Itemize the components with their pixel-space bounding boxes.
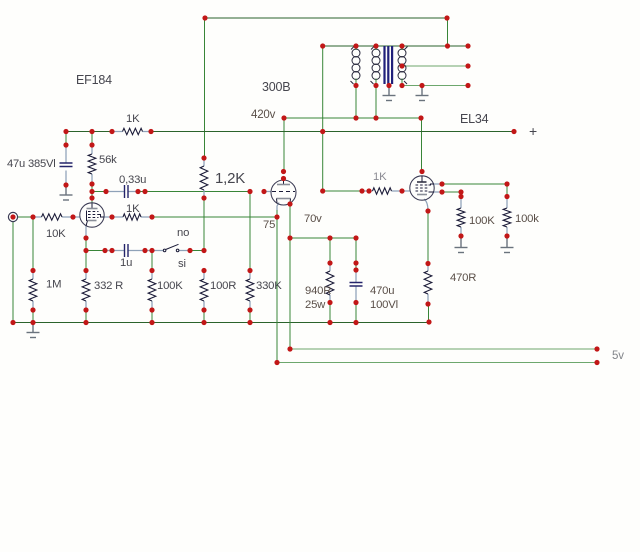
wire 100K bottom to bus	[151, 310, 153, 323]
svg-text:940R: 940R	[305, 285, 331, 297]
ground (47u)	[60, 185, 73, 200]
wire 70v to 470u	[355, 238, 357, 270]
wire top HT rail	[205, 17, 447, 19]
svg-text:420v: 420v	[251, 109, 276, 121]
svg-text:470u: 470u	[370, 285, 394, 297]
wire 1M leads	[32, 271, 34, 311]
resistor 1M	[29, 279, 37, 301]
node dot EL34 top	[419, 169, 424, 174]
wire EL34 upper pin lead	[434, 183, 442, 185]
wire top rail to 1,2K top	[204, 18, 206, 158]
node dots B+ rail	[63, 129, 516, 134]
wire 47u bottom lead	[65, 171, 67, 186]
svg-text:EF184: EF184	[76, 73, 112, 87]
wire 70v row	[290, 237, 356, 239]
node dots 420v plate line	[281, 115, 423, 120]
wire input to 10K	[17, 216, 33, 218]
wire 330K leads	[249, 271, 251, 311]
node dots 300B top	[281, 169, 286, 181]
wire EL34 cathode down to 470R	[427, 211, 429, 264]
resistor 332 R	[82, 279, 90, 301]
ground (main bus)	[27, 323, 40, 338]
wire 470u leads	[355, 270, 357, 303]
node dots top rail	[202, 15, 449, 20]
capacitor 470u 100Vl	[350, 283, 363, 287]
wire EL34 grid row	[323, 190, 362, 192]
wire 300B filament right lead	[289, 202, 291, 204]
svg-text:100K: 100K	[469, 215, 495, 227]
wire 300B grid lead	[264, 191, 271, 193]
ground (secondary)	[416, 86, 429, 101]
svg-text:+: +	[529, 123, 537, 139]
wire 332R leads	[85, 271, 87, 311]
wire 940R leads	[329, 263, 331, 303]
wire 1,2K bottom to switch row	[203, 198, 205, 251]
node dots switch row	[83, 235, 206, 253]
wire 1u leads	[106, 250, 145, 252]
svg-text:100Vl: 100Vl	[370, 299, 398, 311]
wire EL34 100K leads	[460, 197, 462, 237]
node dots 0,33u row	[89, 189, 266, 201]
wire EF184 1K leads	[112, 216, 152, 218]
wire lower row down to 100K	[460, 192, 462, 197]
wire primary1 bottom drop	[355, 86, 357, 119]
svg-text:100R: 100R	[210, 280, 236, 292]
wire 56k leads	[91, 145, 93, 184]
wire 70v to 940R	[329, 238, 331, 263]
resistor 100R	[200, 279, 208, 301]
node dots 5v lines	[274, 346, 599, 365]
wire EF184 1K out to 75 node	[152, 216, 277, 218]
svg-text:0,33u: 0,33u	[119, 174, 146, 186]
wire 420v down to 300B plate	[283, 118, 285, 172]
svg-text:470R: 470R	[450, 272, 476, 284]
wire 10K node down to 1M	[32, 217, 34, 271]
wire EL34 grid pin lead	[402, 190, 410, 192]
wire input down to bus	[12, 222, 14, 323]
wire top rail drop to transformer	[447, 18, 449, 46]
wire switch left lead	[145, 250, 163, 252]
svg-text:1u: 1u	[120, 257, 132, 269]
resistor 100K (EL34 right)	[457, 208, 465, 227]
wire 1M bottom to bus	[32, 310, 34, 323]
node dots input row	[10, 214, 154, 219]
tube EF184 U1	[80, 203, 104, 227]
tube 300B U2	[271, 180, 296, 205]
wire 1,2K leads	[203, 158, 205, 198]
svg-text:1M: 1M	[46, 279, 61, 291]
node dots 70v row	[287, 235, 358, 240]
wire anode node to 0,33u	[92, 191, 106, 193]
resistor 1K (EL34 grid)	[373, 188, 392, 194]
node dots 1,2K	[201, 155, 206, 200]
wire B+ to 47u	[65, 132, 67, 146]
wire 300B grid node down to 330K	[249, 192, 251, 271]
wire ground bus	[13, 322, 429, 324]
wire 1u/switch node down to 100K	[151, 251, 153, 271]
wire EF184 cathode down	[85, 238, 87, 271]
wire plate line down to EL34 plate	[421, 118, 423, 172]
wire B+ rail right segment	[151, 131, 514, 133]
svg-text:1K: 1K	[373, 171, 387, 183]
resistor 100K (EF184 cathode)	[148, 279, 156, 301]
svg-text:1K: 1K	[126, 203, 140, 215]
wire B+ rail left segment	[66, 131, 112, 133]
wire transformer top rail	[323, 45, 468, 47]
wire B+ to 56k	[91, 132, 93, 146]
svg-text:1,2K: 1,2K	[215, 170, 245, 187]
node dots transformer top	[320, 43, 471, 48]
svg-text:no: no	[177, 227, 189, 239]
wire 470R leads	[427, 264, 429, 305]
EL34 internals	[416, 176, 435, 195]
tube EL34 U3	[410, 176, 434, 200]
wire 470u bottom to bus	[355, 303, 357, 323]
wire 332R bottom to bus	[85, 310, 87, 323]
wire cathode node to 1u	[86, 250, 106, 252]
wire 940R bottom to bus	[329, 303, 331, 323]
wire 100R leads	[203, 271, 205, 311]
capacitor 1u	[125, 244, 129, 257]
wire EF184 cathode lead	[85, 226, 87, 238]
node dots EL34 right rows	[439, 181, 509, 238]
wire switch right lead	[179, 250, 190, 252]
node dots EL34 grid row	[320, 188, 405, 193]
wire EF184 right pin lead	[104, 216, 112, 218]
svg-text:5v: 5v	[612, 350, 624, 362]
capacitor 0,33u	[125, 185, 129, 198]
resistor 940R 25w	[326, 271, 334, 295]
wire 5v lower line	[277, 362, 597, 364]
capacitor 47u 385Vl	[60, 163, 73, 167]
wire transformer rail down to EL34 grid node	[322, 46, 324, 191]
node dots resistor bottoms	[30, 300, 430, 313]
wire 300B filament left down	[276, 210, 278, 363]
wire 5v upper line	[290, 348, 597, 350]
svg-text:10K: 10K	[46, 228, 66, 240]
svg-text:330K: 330K	[256, 280, 282, 292]
wire secondary center tap	[402, 65, 468, 67]
wire EL34 1K leads	[362, 190, 402, 192]
wire 470R bottom to bus	[428, 304, 430, 323]
resistor 330K (grid leak)	[246, 279, 254, 301]
wire switch to 100R column	[190, 250, 204, 252]
wire 100R bottom to bus	[203, 310, 205, 323]
resistor 10K (input)	[42, 214, 63, 220]
svg-text:100k: 100k	[515, 213, 539, 225]
svg-text:25w: 25w	[305, 299, 326, 311]
transformer T1 primary winding 1	[351, 46, 361, 86]
svg-text:56k: 56k	[99, 154, 117, 166]
wire primary2 bottom drop	[375, 86, 377, 119]
wire 0,33u to 300B grid node	[138, 191, 250, 193]
EF184 internals	[86, 204, 104, 227]
svg-text:75: 75	[263, 219, 275, 231]
resistor 1K (EF184 output)	[123, 214, 141, 220]
input terminal	[8, 212, 17, 221]
wire EF184 grid lead	[73, 216, 80, 218]
node dots resistor tops	[30, 260, 430, 273]
transformer T1 primary winding 2	[371, 46, 381, 86]
resistor 470R	[424, 271, 432, 294]
svg-text:47u 385Vl: 47u 385Vl	[7, 158, 56, 170]
wire upper row down to 100k	[506, 184, 508, 197]
resistor 100k (EL34 far right)	[503, 208, 511, 227]
wire 420v plate line	[284, 117, 421, 119]
node dots 47u 56k	[63, 142, 94, 187]
wire EL34 lower pin lead	[434, 191, 442, 193]
wire 47u top lead	[65, 145, 67, 163]
svg-text:332 R: 332 R	[94, 280, 123, 292]
wire EL34 upper pin row	[442, 183, 507, 185]
transformer T1 core	[385, 46, 393, 84]
node dots secondary taps	[353, 63, 470, 88]
node dot EL34 cathode	[425, 208, 430, 213]
svg-text:100K: 100K	[157, 280, 183, 292]
resistor 56k	[88, 154, 96, 174]
ground (EL34 100K)	[455, 236, 468, 253]
ground (transformer core)	[383, 86, 396, 101]
svg-text:EL34: EL34	[460, 112, 489, 126]
wire EL34 100k leads	[506, 197, 508, 237]
wire 300B filament right down	[289, 204, 291, 349]
node dots ground bus	[10, 319, 431, 325]
wire 300B filament left lead	[277, 203, 279, 211]
svg-text:300B: 300B	[262, 80, 290, 94]
ground (EL34 100k)	[501, 236, 514, 253]
wire EL34 cathode lead	[424, 199, 428, 211]
svg-text:1K: 1K	[126, 113, 140, 125]
transformer T1 secondary winding	[398, 46, 408, 86]
svg-text:si: si	[178, 258, 186, 270]
wire EL34 lower pin row	[442, 191, 461, 193]
wire 10K leads	[33, 216, 73, 218]
wire 0,33u leads	[106, 191, 138, 193]
wire secondary bottom	[402, 85, 468, 87]
resistor 1K (B+ rail)	[123, 128, 143, 134]
wire 100K leads	[151, 271, 153, 311]
switch no/si	[163, 244, 179, 251]
wire 330K bottom to bus	[249, 310, 251, 323]
wire 56k bottom to EF184 anode	[91, 184, 93, 204]
svg-text:70v: 70v	[304, 213, 322, 225]
node dots 300B pins	[274, 201, 292, 219]
resistor 1,2K	[200, 166, 208, 190]
300B internals	[272, 180, 295, 203]
wire 1K top leads	[112, 131, 151, 133]
